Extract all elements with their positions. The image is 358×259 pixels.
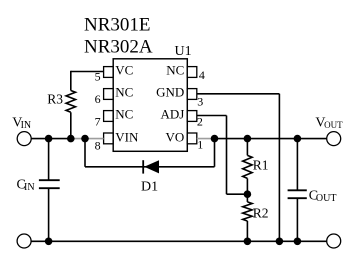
svg-text:ADJ: ADJ bbox=[160, 107, 184, 122]
wire D1 branch down from VIN wire bbox=[84, 139, 86, 167]
pin 5 box bbox=[104, 67, 114, 78]
wire R2 top stub bbox=[246, 194, 248, 202]
pin 6 box bbox=[104, 89, 114, 100]
pin 6 number label bbox=[95, 92, 101, 106]
diode D1 bbox=[143, 160, 159, 173]
pin 4 number label bbox=[199, 68, 205, 82]
wire pin 3 GND horizontal bbox=[197, 93, 280, 95]
svg-text:OUT: OUT bbox=[324, 120, 343, 130]
label R3 bbox=[47, 91, 63, 106]
svg-text:2: 2 bbox=[197, 115, 203, 129]
label VOUT terminal bbox=[315, 115, 343, 130]
pin label GND bbox=[156, 85, 184, 100]
svg-text:NC: NC bbox=[115, 107, 133, 122]
wire CIN top bbox=[48, 139, 50, 181]
pin label VC bbox=[115, 63, 133, 78]
label COUT bbox=[309, 188, 337, 204]
wire VC down to R3 top bbox=[70, 71, 72, 91]
label VIN terminal bbox=[12, 115, 31, 131]
node VO/R1 junction bbox=[244, 135, 252, 143]
resistor R3 bbox=[66, 91, 75, 113]
pin label NC (pin 4) bbox=[166, 63, 184, 78]
pin label NC (pin 6) bbox=[115, 85, 133, 100]
wire CIN bottom bbox=[48, 188, 50, 241]
wire GND vertical to ground rail bbox=[278, 94, 280, 242]
wire pin 2 ADJ horizontal bbox=[197, 115, 227, 117]
svg-text:R3: R3 bbox=[47, 91, 63, 106]
pin 5 number label bbox=[95, 70, 101, 84]
title NR302A bbox=[84, 37, 153, 58]
svg-text:NC: NC bbox=[166, 63, 184, 78]
wire VIN terminal to R3 junction bbox=[31, 138, 72, 140]
node COUT/ground junction bbox=[294, 238, 302, 246]
node VO/COUT junction bbox=[294, 135, 302, 143]
svg-text:U1: U1 bbox=[175, 44, 192, 59]
svg-text:D1: D1 bbox=[141, 180, 158, 195]
svg-text:NR302A: NR302A bbox=[84, 37, 153, 58]
pin 2 number label bbox=[197, 115, 203, 129]
wire D1 horizontal bbox=[85, 166, 215, 168]
pin label NC (pin 7) bbox=[115, 107, 133, 122]
svg-text:GND: GND bbox=[156, 85, 184, 100]
svg-text:OUT: OUT bbox=[316, 193, 337, 204]
svg-text:3: 3 bbox=[197, 95, 203, 109]
wire pin 5 VC horizontal bbox=[71, 71, 104, 73]
pin 8 box bbox=[104, 133, 114, 144]
svg-text:VC: VC bbox=[115, 63, 133, 78]
terminal ground left circle bbox=[17, 234, 31, 248]
capacitor CIN bbox=[39, 180, 60, 188]
svg-text:8: 8 bbox=[95, 138, 101, 152]
wire D1 up to VO wire bbox=[214, 139, 216, 167]
svg-text:VO: VO bbox=[166, 130, 185, 145]
svg-text:6: 6 bbox=[95, 92, 101, 106]
pin 2 box bbox=[187, 111, 197, 122]
wire pin 1 VO gray segment bbox=[197, 138, 215, 140]
svg-text:IN: IN bbox=[24, 182, 35, 193]
IC U1 body bbox=[113, 59, 187, 152]
pin 4 box bbox=[187, 67, 197, 78]
terminal VOUT circle bbox=[327, 132, 341, 146]
node CIN/ground junction bbox=[45, 238, 53, 246]
resistor R1 bbox=[243, 155, 252, 178]
wire ADJ to R1/R2 junction bbox=[227, 193, 248, 195]
wire R2 bottom stub bbox=[246, 221, 248, 241]
wire COUT top bbox=[296, 139, 298, 191]
node R3/VIN junction bbox=[67, 135, 75, 143]
capacitor COUT bbox=[288, 190, 307, 198]
label D1 bbox=[141, 180, 158, 195]
terminal VIN circle bbox=[17, 132, 31, 146]
svg-text:R2: R2 bbox=[253, 205, 269, 220]
wire COUT bottom bbox=[296, 198, 298, 241]
pin 1 box bbox=[187, 133, 197, 144]
label R2 bbox=[253, 205, 269, 220]
pin 1 number label bbox=[197, 137, 203, 151]
wire R3 bottom to VIN wire bbox=[70, 112, 72, 138]
title NR301E bbox=[84, 15, 151, 36]
wire VIN terminal to pin 8 (gray segment into pin) bbox=[71, 138, 104, 140]
pin label VIN bbox=[115, 130, 139, 145]
node CIN/VIN junction bbox=[45, 135, 53, 143]
node R1/R2/ADJ junction bbox=[244, 190, 252, 198]
node VO/D1 junction bbox=[211, 135, 219, 143]
pin 7 box bbox=[104, 111, 114, 122]
label R1 bbox=[253, 158, 269, 173]
terminal ground right circle bbox=[327, 234, 341, 248]
pin 3 box bbox=[187, 89, 197, 100]
svg-text:NR301E: NR301E bbox=[84, 15, 151, 36]
node D1/VIN junction bbox=[81, 135, 89, 143]
pin 7 number label bbox=[95, 114, 101, 128]
wire R1 top stub bbox=[246, 139, 248, 156]
op-amp U1 reference label bbox=[175, 44, 192, 59]
svg-text:7: 7 bbox=[95, 114, 101, 128]
wire VO to VOUT terminal bbox=[215, 138, 327, 140]
svg-text:IN: IN bbox=[21, 120, 32, 131]
pin 3 number label bbox=[197, 95, 203, 109]
wire ADJ vertical bbox=[226, 116, 228, 195]
node R2/ground junction bbox=[244, 238, 252, 246]
svg-text:R1: R1 bbox=[253, 158, 269, 173]
node GND/ground junction bbox=[276, 238, 284, 246]
pin label VO bbox=[166, 130, 185, 145]
label CIN bbox=[17, 177, 35, 193]
svg-text:VIN: VIN bbox=[115, 130, 139, 145]
pin label ADJ bbox=[160, 107, 184, 122]
pin 8 number label bbox=[95, 138, 101, 152]
svg-text:4: 4 bbox=[199, 68, 205, 82]
ground rail wire bbox=[31, 240, 327, 242]
resistor R2 bbox=[243, 202, 252, 221]
svg-text:NC: NC bbox=[115, 85, 133, 100]
wire R1 bottom stub bbox=[246, 178, 248, 194]
